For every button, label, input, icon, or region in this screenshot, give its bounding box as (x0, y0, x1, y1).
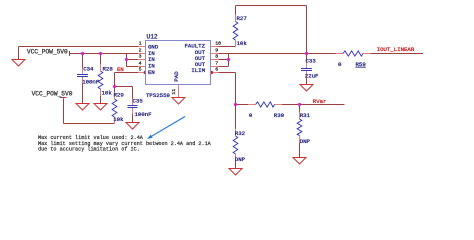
svg-text:due to accuracy limitation of: due to accuracy limitation of IC. (38, 146, 140, 152)
svg-text:6: 6 (215, 67, 218, 73)
svg-text:10: 10 (215, 41, 221, 47)
svg-text:R28: R28 (103, 65, 114, 72)
svg-text:EN: EN (148, 69, 155, 76)
svg-text:C34: C34 (83, 65, 94, 72)
svg-text:R31: R31 (300, 112, 311, 119)
svg-text:DNP: DNP (235, 156, 246, 163)
svg-text:11: 11 (171, 89, 177, 95)
svg-text:10k: 10k (102, 90, 113, 97)
svg-text:10k: 10k (237, 40, 248, 47)
svg-text:R27: R27 (237, 15, 247, 22)
svg-text:R32: R32 (235, 130, 246, 137)
svg-text:1: 1 (139, 41, 142, 47)
svg-text:7: 7 (215, 61, 218, 67)
svg-text:IOUT_LINEAR: IOUT_LINEAR (377, 46, 415, 53)
svg-text:9: 9 (215, 48, 218, 54)
svg-text:ILIM: ILIM (191, 67, 205, 74)
svg-text:C35: C35 (133, 98, 144, 105)
svg-text:PAD: PAD (173, 71, 180, 82)
svg-text:2: 2 (139, 48, 142, 54)
svg-text:RVar: RVar (313, 98, 327, 105)
svg-text:EN: EN (117, 66, 124, 73)
svg-text:10k: 10k (113, 116, 124, 123)
svg-text:4: 4 (139, 61, 142, 67)
svg-text:R59: R59 (356, 61, 367, 68)
svg-text:5: 5 (139, 67, 142, 73)
svg-text:0: 0 (249, 112, 253, 119)
svg-text:0: 0 (338, 61, 342, 68)
svg-text:R30: R30 (274, 112, 285, 119)
svg-text:U12: U12 (147, 34, 158, 41)
svg-text:TPS2559: TPS2559 (146, 92, 170, 99)
svg-text:VCC_POW_5V0: VCC_POW_5V0 (27, 49, 68, 56)
svg-text:C33: C33 (306, 58, 317, 65)
svg-text:DNP: DNP (300, 138, 311, 145)
svg-text:100nF: 100nF (82, 78, 100, 85)
svg-text:8: 8 (215, 54, 218, 60)
svg-text:R29: R29 (114, 91, 125, 98)
svg-text:VCC_POW_5V0: VCC_POW_5V0 (32, 90, 73, 97)
svg-text:22uF: 22uF (305, 72, 319, 79)
svg-text:3: 3 (139, 54, 142, 60)
svg-text:100nF: 100nF (135, 111, 153, 118)
